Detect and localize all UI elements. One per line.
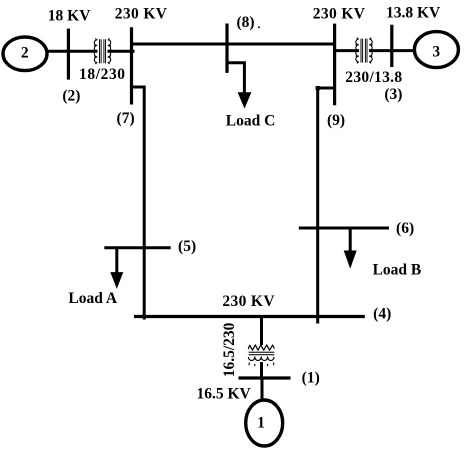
svg-text:1: 1 (257, 415, 265, 432)
wire T3 to bus3 (369, 49, 392, 52)
bus 4 bar (134, 315, 365, 318)
svg-text:230/13.8: 230/13.8 (345, 69, 402, 86)
arrow Load A (115, 248, 118, 276)
svg-text:13.8 KV: 13.8 KV (386, 5, 441, 22)
svg-text:16.5 KV: 16.5 KV (197, 386, 252, 403)
wire bus8 to Load C (227, 63, 244, 96)
wire T2 to bus7 (108, 50, 135, 53)
svg-text:16.5/230: 16.5/230 (221, 322, 238, 377)
svg-text:18/230: 18/230 (79, 66, 126, 83)
svg-text:2: 2 (21, 45, 29, 62)
svg-text:(4): (4) (373, 306, 391, 323)
svg-text:(6): (6) (396, 220, 414, 237)
bus 3 bar (390, 25, 393, 67)
wire bus9 to bus4 line 9-6-4 (318, 88, 335, 324)
svg-text:(5): (5) (178, 238, 196, 255)
generator G1 (246, 400, 283, 446)
line 7-8-9 top transmission wire (132, 43, 335, 46)
svg-text:230 KV: 230 KV (222, 293, 275, 310)
bus 2 bar (67, 29, 70, 80)
svg-text:230 KV: 230 KV (115, 6, 168, 23)
wire T1 to bus1 (260, 362, 263, 378)
svg-text:230 KV: 230 KV (313, 5, 366, 22)
svg-text:(7): (7) (117, 110, 135, 127)
stray dot (258, 26, 260, 28)
bus 6 bar (299, 227, 389, 230)
svg-text:Load A: Load A (68, 290, 117, 307)
wire bus7 to bus4 line 7-5-4 (132, 87, 145, 320)
bus 9 bar (333, 24, 336, 106)
generator G3 (414, 32, 458, 68)
arrow Load C (238, 92, 252, 108)
arrow Load B (349, 228, 352, 254)
svg-text:(8): (8) (236, 14, 254, 31)
transformer T1 (248, 345, 274, 366)
svg-text:(3): (3) (384, 86, 402, 103)
transformer T2 (94, 38, 111, 64)
wire bus3 to G3 (392, 49, 415, 52)
svg-text:(2): (2) (62, 87, 80, 104)
svg-text:(1): (1) (302, 370, 320, 387)
bus 8 bar (225, 24, 228, 73)
bus 1 bar (239, 376, 291, 379)
junction square bus9 tap (316, 86, 320, 90)
svg-text:3: 3 (432, 44, 440, 61)
wire bus1 to G1 (261, 378, 264, 401)
wire bus9 to T3 (333, 49, 359, 52)
bus 7 bar (130, 27, 133, 104)
generator G2 (3, 37, 47, 71)
svg-text:18 KV: 18 KV (48, 7, 91, 24)
transformer T3 (355, 38, 372, 64)
wire bus4 to T1 (260, 317, 263, 346)
wire G2 to T2 (47, 50, 98, 53)
svg-text:Load B: Load B (373, 262, 422, 279)
svg-text:Load C: Load C (226, 113, 276, 130)
bus 5 bar (104, 246, 170, 249)
svg-text:(9): (9) (327, 112, 345, 129)
